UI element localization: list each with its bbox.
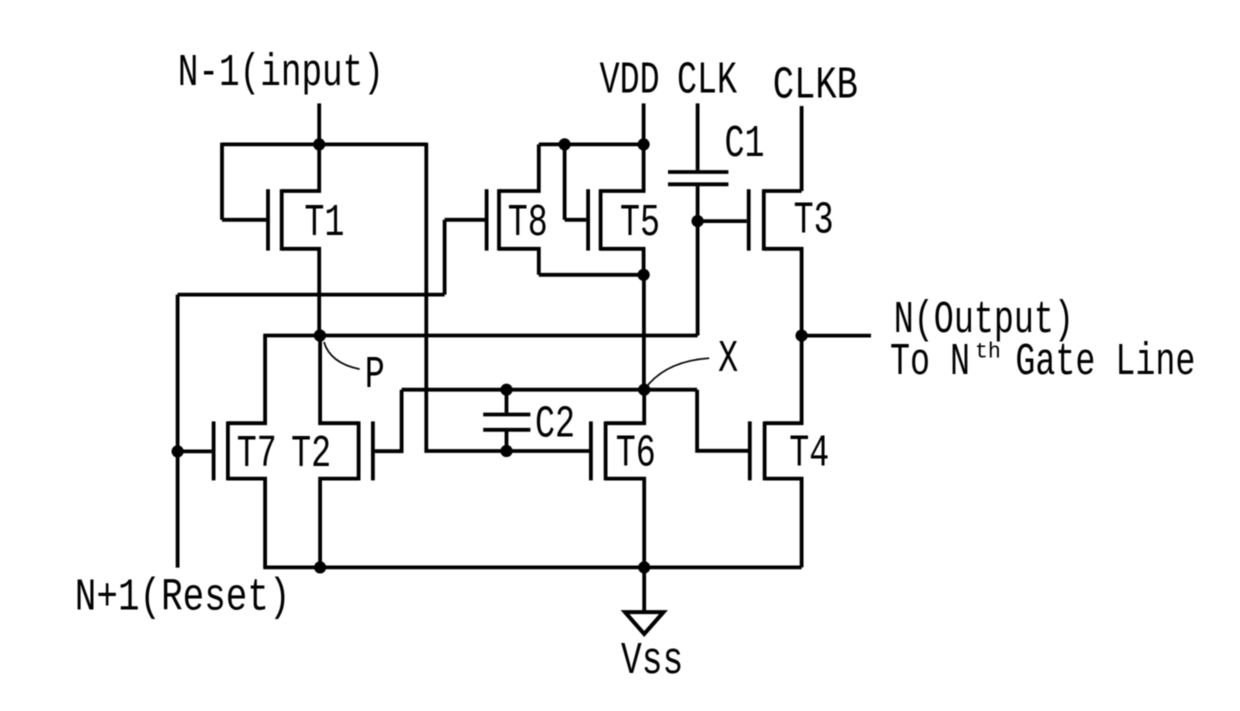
transistor T7 gate bar — [212, 421, 216, 480]
svg-text:T6: T6 — [616, 428, 656, 479]
wire left rail — [176, 295, 180, 568]
transistor T1 drain stub — [282, 144, 320, 191]
node P junction — [314, 329, 326, 341]
transistor T5 drain stub — [601, 144, 644, 191]
transistor T8 drain stub — [499, 144, 539, 191]
svg-text:T7: T7 — [237, 428, 277, 479]
wire T5 gate drop — [563, 144, 567, 219]
svg-text:To: To — [890, 336, 930, 387]
svg-text:VDD: VDD — [600, 55, 660, 106]
svg-text:X: X — [718, 333, 738, 384]
svg-text:C1: C1 — [725, 118, 765, 169]
transistor T5 source stub — [601, 249, 644, 275]
node input junction — [313, 138, 325, 150]
svg-text:CLK: CLK — [677, 55, 737, 106]
svg-text:C2: C2 — [535, 399, 575, 450]
node Vss junction — [638, 561, 650, 573]
wire T8 gate lead — [445, 218, 485, 222]
wire CLK stub — [696, 103, 700, 170]
node X junction — [638, 384, 650, 396]
transistor T3 channel bar — [762, 189, 766, 250]
transistor T2 gate bar — [371, 421, 375, 480]
wire T3 gate lead — [698, 219, 747, 223]
wire CLKB stub — [800, 106, 804, 191]
svg-text:N: N — [950, 336, 970, 387]
svg-text:N+1(Reset): N+1(Reset) — [75, 573, 291, 624]
node P pointer curve — [324, 342, 360, 369]
transistor T1 gate bar — [266, 189, 270, 250]
wire bottom rail — [263, 566, 801, 570]
node T8 T5 source junction — [638, 269, 650, 281]
transistor T4 source stub — [765, 479, 802, 568]
node VDD junction — [638, 138, 650, 150]
wire T8 gate drop — [443, 220, 447, 295]
transistor T7 drain stub — [228, 336, 265, 424]
wire T1 gate drop — [220, 143, 224, 220]
transistor T4 gate bar — [748, 421, 752, 480]
transistor T6 drain stub — [606, 390, 645, 424]
svg-text:T8: T8 — [508, 198, 548, 249]
transistor T4 channel bar — [763, 421, 767, 480]
capacitor C2 top plate — [483, 413, 530, 417]
svg-text:T4: T4 — [789, 428, 829, 479]
wire node P line — [263, 334, 697, 338]
svg-text:T1: T1 — [304, 197, 344, 248]
transistor T5 gate bar — [586, 189, 590, 250]
transistor T5 channel bar — [599, 189, 603, 250]
node T5 gate junction — [559, 138, 571, 150]
capacitor C2 bottom plate — [483, 428, 530, 432]
wire VDD node line — [539, 142, 644, 146]
wire N-1 right drop — [426, 143, 591, 451]
transistor T4 drain stub — [765, 336, 802, 424]
svg-text:P: P — [365, 349, 385, 400]
capacitor C2 bottom tap — [505, 432, 509, 452]
wire T7 gate lead — [178, 449, 212, 453]
node X pointer curve — [648, 358, 710, 385]
transistor T7 source stub — [228, 479, 265, 568]
wire output stub — [802, 334, 871, 338]
node C2 top junction — [500, 384, 512, 396]
svg-text:N-1(input): N-1(input) — [178, 48, 384, 100]
transistor T8 gate bar — [485, 189, 489, 250]
wire mid drop to X — [642, 275, 646, 390]
svg-text:Vss: Vss — [621, 636, 683, 688]
transistor T6 gate bar — [589, 421, 593, 480]
transistor T6 channel bar — [604, 421, 608, 480]
wire CLK lower drop — [696, 186, 700, 335]
transistor T6 source stub — [606, 479, 645, 568]
svg-text:T2: T2 — [291, 428, 331, 479]
wire T1 gate lead — [222, 218, 266, 222]
node C2 bottom junction — [500, 445, 512, 457]
svg-text:CLKB: CLKB — [773, 61, 858, 112]
svg-text:Gate: Gate — [1015, 336, 1095, 387]
transistor T3 gate bar — [747, 189, 751, 250]
svg-text:T5: T5 — [620, 198, 660, 249]
transistor T2 source stub — [320, 479, 359, 568]
node T3 gate junction — [692, 215, 704, 227]
transistor T3 source stub — [764, 249, 802, 336]
wire T2 gate lead — [375, 390, 402, 452]
wire N-1 input stub — [317, 103, 321, 144]
wire T8 source line — [539, 273, 644, 277]
svg-text:th: th — [975, 339, 1001, 364]
node T7 gate junction — [172, 445, 184, 457]
transistor T3 drain stub — [764, 189, 802, 193]
transistor T2 drain stub — [320, 336, 359, 424]
transistor T8 source stub — [499, 249, 539, 275]
wire top input line — [222, 142, 426, 146]
wire X jog to T4 gate — [697, 390, 748, 451]
wire T5 gate lead — [565, 218, 587, 222]
node output junction — [796, 330, 808, 342]
ground Vss triangle — [625, 612, 664, 634]
svg-text:Line: Line — [1115, 336, 1195, 387]
transistor T2 channel bar — [357, 421, 361, 480]
capacitor C2 top tap — [505, 390, 509, 413]
wire VDD stub — [642, 103, 646, 144]
svg-text:T3: T3 — [794, 195, 834, 246]
capacitor C1 top plate — [668, 170, 728, 174]
wire Vss stem — [642, 567, 646, 612]
wire node X line — [402, 388, 697, 392]
transistor T1 channel bar — [280, 189, 284, 250]
transistor T8 channel bar — [497, 189, 501, 250]
capacitor C1 bottom plate — [668, 182, 728, 186]
node T2 source junction — [314, 561, 326, 573]
transistor T7 channel bar — [226, 421, 230, 480]
wire N+1 long line — [178, 293, 445, 297]
transistor T1 source stub — [282, 249, 320, 336]
